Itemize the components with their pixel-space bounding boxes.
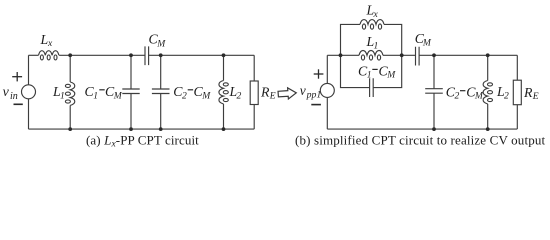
- wire: (b) main wire CM to right corner: [419, 54, 517, 56]
- node L2-top (b): [486, 53, 490, 57]
- wire: (b) top branch right riser: [384, 24, 402, 55]
- inductor L2 (a) branch: [223, 55, 225, 80]
- node C1-bottom (a): [129, 127, 133, 131]
- polarity + (b): [314, 69, 324, 78]
- inductor Lx (b) top branch coil: [360, 20, 384, 25]
- svg-text:M: M: [422, 37, 432, 48]
- svg-text:(a) Lx-PP CPT circuit: (a) Lx-PP CPT circuit: [86, 132, 199, 149]
- wire: (b) bottom branch left riser: [341, 55, 370, 87]
- capacitor C2-CM (b) branch: [433, 55, 435, 88]
- wire: (b) left edge upper: [326, 55, 328, 83]
- big arrow between circuits: [278, 87, 297, 99]
- node C2-top (a): [159, 53, 163, 57]
- wire: (b) bottom wire: [327, 128, 517, 130]
- resistor RE (b) branch: [516, 55, 518, 80]
- svg-text:x: x: [47, 38, 53, 49]
- node L1-bottom (a): [68, 127, 72, 131]
- node C2-bottom (a): [159, 127, 163, 131]
- svg-text:2: 2: [237, 91, 242, 102]
- source circle vpp1 (b): [320, 83, 334, 97]
- polarity - (a): [14, 103, 23, 105]
- source circle vin (a): [22, 85, 36, 99]
- node C2-bottom (b): [432, 127, 436, 131]
- svg-text:R: R: [260, 84, 270, 99]
- svg-text:pp1: pp1: [306, 89, 322, 100]
- inductor L1 (b) on main wire: [359, 51, 383, 56]
- svg-text:1: 1: [367, 69, 372, 80]
- wire: (b) main wire L1 to CM cap: [383, 54, 416, 56]
- svg-text:M: M: [201, 90, 211, 101]
- node right (b): [400, 53, 404, 57]
- node C1-top (a): [129, 53, 133, 57]
- node C2-top (b): [432, 53, 436, 57]
- inductor L1 (a) branch: [69, 55, 71, 82]
- wire: (b) main wire corner to L1: [327, 54, 359, 56]
- svg-text:E: E: [269, 91, 276, 102]
- capacitor CM (a) series plates: [145, 46, 149, 65]
- wire: (a) top wire left segment: [29, 54, 39, 56]
- node L2-top (a): [222, 53, 226, 57]
- svg-text:M: M: [113, 90, 123, 101]
- svg-text:(b) simplified CPT circuit to: (b) simplified CPT circuit to realize CV…: [295, 132, 546, 147]
- svg-text:1: 1: [60, 90, 65, 101]
- svg-text:2: 2: [504, 91, 509, 102]
- svg-text:R: R: [523, 85, 533, 100]
- wire: (a) top wire from CM cap to right corner: [149, 54, 255, 56]
- svg-text:in: in: [10, 91, 18, 102]
- node L1-top (a): [68, 53, 72, 57]
- svg-text:v: v: [3, 85, 10, 100]
- capacitor C1-CM (b) plates: [370, 78, 374, 97]
- node L2-bottom (b): [486, 127, 490, 131]
- capacitor CM (b) series plates: [416, 47, 420, 66]
- wire: (b) top branch left riser: [341, 24, 361, 55]
- svg-text:x: x: [373, 9, 379, 20]
- svg-text:2: 2: [182, 90, 187, 101]
- svg-text:M: M: [474, 91, 484, 102]
- svg-text:M: M: [156, 38, 166, 49]
- svg-text:1: 1: [374, 40, 379, 51]
- svg-text:1: 1: [93, 90, 98, 101]
- wire: (b) left edge lower: [326, 97, 328, 129]
- wire: (a) left edge upper: [28, 55, 30, 85]
- svg-text:E: E: [532, 91, 539, 102]
- wire: (a) top wire from Lx to CM cap: [59, 54, 145, 56]
- node L2-bottom (a): [222, 127, 226, 131]
- inductor L2 (b) branch: [487, 55, 489, 80]
- wire: (b) bottom branch right riser: [373, 55, 402, 87]
- wire: (a) left edge lower: [28, 99, 30, 129]
- node left (b): [339, 53, 343, 57]
- capacitor C1-CM (a) branch: [130, 55, 132, 89]
- wire: (a) bottom wire: [29, 128, 255, 130]
- inductor Lx (a) horizontal coil: [39, 51, 59, 56]
- svg-text:M: M: [386, 69, 396, 80]
- polarity - (b): [311, 104, 321, 106]
- capacitor C2-CM (a) branch: [160, 55, 162, 89]
- svg-text:v: v: [300, 83, 306, 98]
- polarity + (a): [12, 72, 22, 81]
- resistor RE (a) branch: [253, 55, 255, 81]
- svg-text:2: 2: [455, 91, 460, 102]
